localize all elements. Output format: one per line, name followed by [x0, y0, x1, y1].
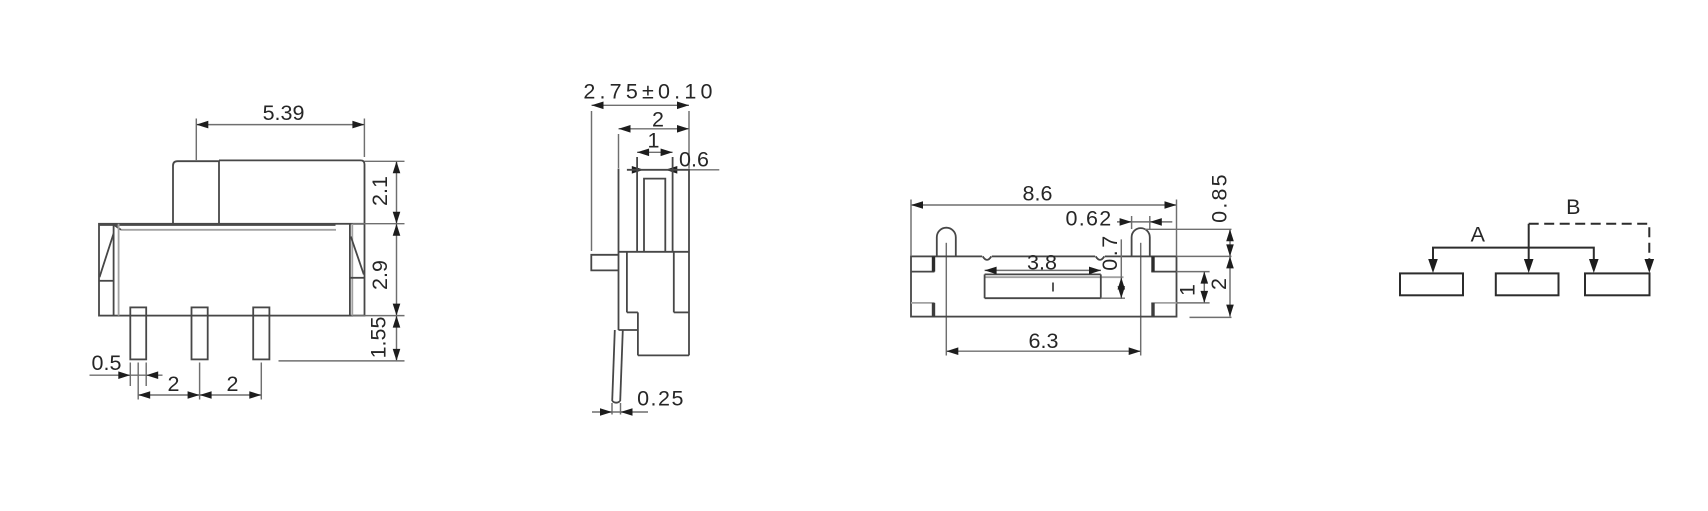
- svg-text:6.3: 6.3: [1029, 329, 1059, 353]
- svg-text:2: 2: [227, 372, 239, 396]
- svg-text:2.75±0.10: 2.75±0.10: [583, 80, 716, 104]
- svg-text:8.6: 8.6: [1023, 182, 1053, 206]
- svg-text:1.55: 1.55: [367, 317, 391, 359]
- svg-text:2: 2: [168, 372, 180, 396]
- svg-text:A: A: [1471, 222, 1486, 246]
- svg-text:1: 1: [1176, 284, 1200, 296]
- svg-text:0.5: 0.5: [92, 351, 122, 375]
- svg-text:0.25: 0.25: [637, 387, 685, 411]
- svg-text:2.9: 2.9: [368, 260, 392, 290]
- svg-text:2.1: 2.1: [368, 176, 392, 206]
- svg-text:0.62: 0.62: [1065, 207, 1112, 231]
- svg-text:2: 2: [1207, 278, 1231, 290]
- svg-text:5.39: 5.39: [263, 101, 305, 125]
- svg-text:1: 1: [648, 129, 660, 153]
- svg-text:0.85: 0.85: [1208, 172, 1232, 223]
- svg-text:0.7: 0.7: [1098, 233, 1122, 270]
- svg-text:0.6: 0.6: [679, 148, 709, 172]
- svg-text:B: B: [1566, 195, 1580, 219]
